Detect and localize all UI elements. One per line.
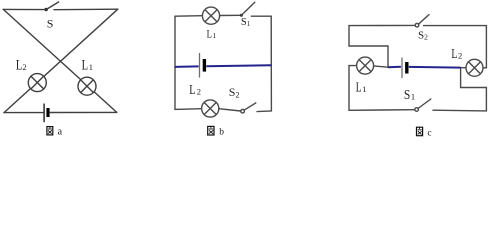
svg-text:1: 1 (362, 84, 366, 94)
wire middle branch (blue) left part (388, 66, 401, 68)
wire right edge upper (top-right corner down to lamp L2 stub) (485, 26, 487, 68)
wire top segment middle (lamp to switch S1) (220, 14, 240, 16)
wire bottom segment right (switch to bottom-right corner) (433, 109, 486, 112)
wire stub lamp L1 left (349, 65, 357, 67)
wire top-right segment (switch to right vertex) (54, 8, 118, 11)
wire bottom segment left (corner to switch S1) (349, 109, 415, 112)
battery (402, 58, 407, 79)
wire top segment left (corner to lamp L1) (175, 15, 203, 18)
svg-text:b: b (219, 128, 224, 138)
svg-text:L: L (16, 58, 22, 74)
wire middle branch (blue) right part (409, 66, 461, 69)
wire right step down from node Q (460, 68, 462, 88)
battery (200, 53, 205, 78)
svg-text:2: 2 (197, 87, 201, 97)
wire diagonal from top-right vertex to bottom-left vertex (4, 9, 118, 112)
lamp L2 (202, 100, 219, 117)
wire right edge lower (485, 88, 487, 111)
wire stub lamp L1 right to node P (374, 66, 389, 67)
lamp L2 (466, 59, 483, 76)
wire bottom segment left (corner to lamp L2) (175, 108, 202, 111)
wire left edge (174, 16, 176, 109)
lamp L2 (28, 74, 46, 92)
wire bottom-right segment (battery to bottom-right vertex) (50, 111, 117, 113)
svg-text:L: L (356, 79, 362, 94)
wire upper-left step drop to node P (387, 46, 389, 67)
lamp L1 (78, 77, 96, 95)
switch S1 (240, 2, 255, 17)
lamp L1 (202, 7, 219, 24)
wire stub lamp L2 right (483, 67, 486, 69)
wire bottom-left segment (bottom-left vertex to battery) (4, 112, 43, 114)
svg-text:L: L (189, 82, 195, 97)
svg-text:1: 1 (213, 31, 217, 40)
svg-text:1: 1 (411, 91, 415, 101)
wire middle branch (blue) right part (206, 64, 271, 67)
wire top segment left (top-left corner to switch S2) (349, 24, 415, 26)
switch S (45, 2, 59, 11)
wire bottom segment right (switch to bottom-right corner) (257, 110, 271, 113)
wire right step horizontal (461, 87, 487, 89)
wire top-left segment (left vertex to switch S) (3, 8, 44, 10)
wire diagonal from top-left vertex to bottom-right vertex (3, 9, 117, 112)
svg-text:a: a (58, 127, 63, 138)
switch S1 (415, 99, 431, 111)
svg-text:2: 2 (458, 51, 462, 61)
wire right edge (270, 16, 272, 111)
battery (44, 104, 48, 123)
caption 图b (208, 126, 225, 137)
wire upper-left step vertical (348, 26, 350, 46)
switch S2 (415, 15, 429, 27)
svg-text:L: L (82, 58, 88, 74)
wire top segment right (switch to top-right corner) (424, 25, 487, 27)
svg-text:2: 2 (22, 62, 26, 72)
svg-text:S: S (404, 88, 410, 103)
svg-text:c: c (427, 128, 431, 138)
wire top segment right (switch to top-right corner) (251, 15, 271, 17)
lamp L1 (357, 57, 374, 74)
wire left edge lower (348, 66, 350, 111)
svg-text:S: S (47, 17, 54, 31)
svg-text:L: L (207, 29, 212, 41)
wire upper-left step horizontal (349, 45, 388, 47)
wire middle branch (blue) left part (175, 65, 199, 68)
switch S2 (241, 103, 256, 113)
svg-text:L: L (451, 47, 457, 62)
caption 图c (417, 127, 432, 138)
wire stub lamp L2 left (461, 67, 466, 69)
svg-text:1: 1 (89, 62, 93, 72)
wire bottom segment middle (lamp to switch S2) (219, 109, 241, 111)
caption 图a (47, 127, 63, 138)
